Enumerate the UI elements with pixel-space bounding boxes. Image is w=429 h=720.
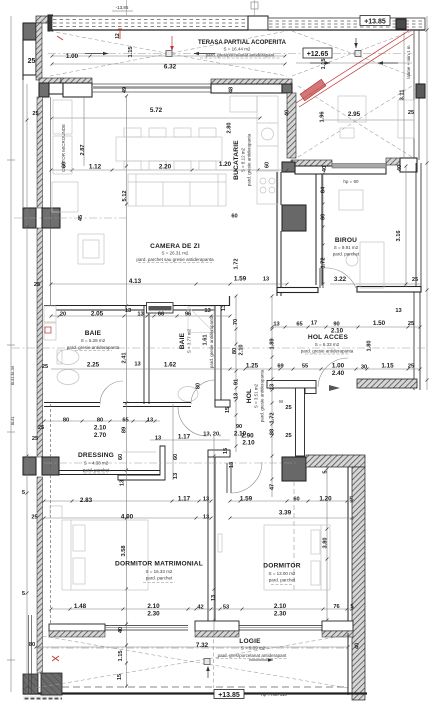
- svg-text:hp = 90: hp = 90: [343, 179, 359, 184]
- svg-text:1.80: 1.80: [367, 340, 373, 351]
- top wall of living room with window: [39, 78, 92, 97]
- inner face of left wall: [50, 97, 52, 624]
- svg-text:60: 60: [231, 214, 237, 220]
- svg-text:47: 47: [270, 484, 276, 490]
- svg-text:25: 25: [42, 364, 48, 370]
- svg-text:25: 25: [408, 364, 414, 370]
- svg-text:BAIE: BAIE: [85, 330, 102, 337]
- furniture: [44, 96, 414, 590]
- birou top wall with window: [282, 158, 417, 174]
- svg-text:BL81-BL-06: BL81-BL-06: [11, 366, 15, 385]
- far-left elevation dim line: [10, 16, 12, 692]
- right outer dim line: [426, 16, 428, 390]
- tv unit: [78, 234, 104, 264]
- svg-text:1.61: 1.61: [203, 334, 209, 345]
- left dim line: [26, 84, 28, 695]
- svg-text:5: 5: [323, 470, 329, 473]
- svg-text:pard. gresie antiderapanta: pard. gresie antiderapanta: [260, 369, 265, 422]
- svg-text:25: 25: [32, 436, 38, 442]
- svg-text:13: 13: [155, 436, 161, 442]
- svg-text:15: 15: [225, 407, 231, 413]
- baie2 door arc: [191, 380, 215, 404]
- column at bedroom2 corner: [282, 457, 306, 481]
- svg-text:13: 13: [125, 308, 131, 314]
- svg-text:13: 13: [221, 305, 227, 311]
- svg-text:+12.65: +12.65: [307, 51, 329, 58]
- svg-text:DORMITOR: DORMITOR: [263, 563, 300, 570]
- svg-text:S = 16.44 m2: S = 16.44 m2: [224, 47, 251, 52]
- svg-text:S = 3.51 m2: S = 3.51 m2: [254, 383, 259, 408]
- svg-text:25: 25: [38, 425, 44, 431]
- svg-text:5: 5: [350, 604, 353, 610]
- svg-text:CAMERA DE ZI: CAMERA DE ZI: [150, 243, 200, 250]
- svg-text:2.90: 2.90: [241, 433, 254, 440]
- left outer line top terrace: [22, 80, 24, 208]
- right exterior hatched wall: [352, 467, 365, 700]
- svg-text:13: 13: [134, 362, 140, 368]
- svg-text:pard. gresie antiderapanta: pard. gresie antiderapanta: [67, 345, 120, 350]
- svg-text:13: 13: [147, 418, 153, 424]
- hol acces bottom entry wall: [318, 358, 417, 391]
- bedroom doors: [227, 462, 262, 493]
- svg-text:3.16: 3.16: [396, 230, 402, 241]
- svg-text:pard. gresie antiderapanta: pard. gresie antiderapanta: [209, 315, 214, 368]
- svg-text:1.48: 1.48: [74, 603, 87, 610]
- svg-text:17: 17: [311, 321, 317, 327]
- svg-text:1.00: 1.00: [66, 53, 79, 60]
- red marks: [45, 29, 413, 661]
- terrace top parapet left: [48, 15, 268, 31]
- svg-text:13: 13: [137, 312, 143, 318]
- svg-text:pard. parchet: pard. parchet: [83, 468, 110, 473]
- svg-text:+13.85: +13.85: [364, 19, 386, 26]
- svg-text:latime + min 1 m: latime + min 1 m: [406, 45, 411, 78]
- svg-text:+13.85: +13.85: [218, 692, 240, 699]
- svg-text:BUCATARIE: BUCATARIE: [233, 140, 240, 180]
- svg-text:1.62: 1.62: [164, 362, 177, 369]
- svg-text:5: 5: [349, 497, 352, 503]
- svg-text:80: 80: [63, 418, 69, 424]
- svg-text:S = 5.39 m2: S = 5.39 m2: [241, 646, 266, 651]
- svg-text:3.11: 3.11: [400, 90, 406, 101]
- svg-text:25: 25: [32, 111, 38, 117]
- svg-text:HOL ACCES: HOL ACCES: [308, 334, 349, 341]
- logie bottom wall: [23, 687, 367, 700]
- svg-text:pard. parchet: pard. parchet: [146, 576, 173, 581]
- svg-text:pard. gresie antiderapanta: pard. gresie antiderapanta: [301, 349, 354, 354]
- armchair left: [52, 182, 78, 212]
- svg-text:S = 3.77 m2: S = 3.77 m2: [187, 328, 192, 353]
- svg-text:2.40: 2.40: [332, 370, 345, 377]
- svg-text:25: 25: [408, 110, 414, 116]
- bed 2: [264, 525, 330, 590]
- top-left corner wall: [23, 16, 75, 80]
- svg-text:6.32: 6.32: [164, 64, 177, 71]
- tick marks: [35, 55, 422, 649]
- svg-text:1.17: 1.17: [178, 434, 191, 441]
- svg-text:80: 80: [97, 418, 103, 424]
- svg-text:15: 15: [117, 674, 123, 680]
- svg-text:1.00: 1.00: [332, 363, 345, 370]
- birou & hall bottom wall: [277, 287, 421, 293]
- svg-text:DRESSING: DRESSING: [78, 452, 114, 459]
- top edge tiny marks: [112, 0, 258, 16]
- svg-text:70: 70: [233, 319, 239, 325]
- birou: [360, 242, 384, 288]
- svg-text:40: 40: [322, 166, 328, 172]
- svg-text:40: 40: [118, 627, 124, 633]
- svg-text:1.12: 1.12: [89, 164, 102, 171]
- birou right wall: [416, 163, 421, 291]
- svg-text:-13,85: -13,85: [116, 5, 129, 10]
- bottom wall bedroom2 + window: [239, 621, 353, 637]
- svg-text:13: 13: [273, 322, 279, 328]
- svg-text:2.83: 2.83: [80, 497, 93, 504]
- svg-text:69: 69: [277, 364, 283, 370]
- svg-text:5: 5: [22, 591, 25, 597]
- svg-text:30: 30: [361, 365, 367, 371]
- svg-text:2.41: 2.41: [122, 352, 128, 363]
- svg-text:1.72: 1.72: [234, 258, 240, 269]
- svg-text:42: 42: [197, 605, 203, 611]
- svg-text:pard. parchet sau gresie antid: pard. parchet sau gresie antiderapanta: [136, 257, 214, 262]
- terrace top parapet right: [268, 18, 425, 30]
- kitchen tall units left: [53, 100, 72, 134]
- svg-text:S = 16.33 m2: S = 16.33 m2: [146, 569, 173, 574]
- svg-text:7.32: 7.32: [196, 642, 209, 649]
- svg-text:13: 13: [203, 497, 209, 503]
- svg-text:S = 8.12 m2: S = 8.12 m2: [241, 147, 246, 172]
- svg-text:1.96: 1.96: [320, 111, 326, 122]
- svg-text:3.58: 3.58: [121, 545, 127, 556]
- svg-text:49: 49: [122, 87, 128, 93]
- svg-text:13: 13: [395, 308, 401, 314]
- svg-text:13, 20,: 13, 20,: [203, 432, 221, 438]
- svg-text:S = 4.38 m2: S = 4.38 m2: [84, 461, 109, 466]
- svg-text:60: 60: [321, 214, 327, 220]
- svg-text:1.15: 1.15: [118, 650, 124, 661]
- svg-text:1.59: 1.59: [240, 496, 253, 503]
- svg-text:60: 60: [173, 454, 179, 460]
- svg-text:25: 25: [34, 282, 40, 288]
- svg-text:S = 9.91 m2: S = 9.91 m2: [334, 245, 359, 250]
- T base wall between bedrooms at logie: [195, 621, 239, 637]
- left wall columns: [23, 208, 36, 228]
- svg-text:40: 40: [285, 110, 291, 116]
- svg-text:S = 26.31 m2: S = 26.31 m2: [162, 251, 189, 256]
- svg-text:90: 90: [236, 424, 242, 430]
- svg-text:91: 91: [234, 379, 240, 385]
- svg-text:1.72: 1.72: [270, 412, 276, 423]
- svg-text:DORMITOR MATRIMONIAL: DORMITOR MATRIMONIAL: [115, 561, 203, 568]
- kitchen top wall: [211, 79, 292, 93]
- svg-text:3.39: 3.39: [279, 510, 292, 517]
- svg-text:1.25: 1.25: [246, 363, 259, 370]
- bathrooms bottom wall: [44, 403, 191, 407]
- svg-text:S = 5.28 m2: S = 5.28 m2: [81, 338, 106, 343]
- svg-text:25: 25: [285, 433, 291, 439]
- horizontal chains: [52, 55, 285, 57]
- svg-text:S = 6.33 m2: S = 6.33 m2: [315, 342, 340, 347]
- svg-text:2.25: 2.25: [87, 362, 100, 369]
- svg-text:2.87: 2.87: [80, 144, 86, 155]
- svg-text:BL81: BL81: [11, 417, 15, 425]
- svg-text:60: 60: [293, 497, 299, 503]
- covered terrace left wall (hatched): [287, 93, 296, 158]
- svg-text:1.15: 1.15: [381, 363, 394, 370]
- svg-text:25: 25: [28, 58, 36, 65]
- svg-text:1.72: 1.72: [321, 257, 327, 268]
- svg-text:1.89: 1.89: [270, 338, 276, 349]
- svg-text:2.10: 2.10: [239, 344, 245, 355]
- svg-text:1.59: 1.59: [234, 276, 247, 283]
- svg-text:13: 13: [229, 462, 235, 468]
- wall kitchen-hall below column: [277, 172, 281, 296]
- left outer line logie: [29, 615, 32, 694]
- bathroom2 right wall: [215, 306, 230, 407]
- svg-text:2.10: 2.10: [94, 425, 107, 432]
- birou vertical chain: [322, 174, 324, 287]
- svg-text:40: 40: [355, 643, 361, 649]
- svg-text:1.20: 1.20: [219, 161, 232, 168]
- svg-text:2.10: 2.10: [242, 440, 255, 447]
- svg-text:2.20: 2.20: [159, 164, 172, 171]
- svg-text:48: 48: [229, 87, 235, 93]
- pard label underlines: [75, 58, 350, 659]
- svg-text:pard. parchet: pard. parchet: [269, 578, 296, 583]
- svg-text:1.15: 1.15: [321, 58, 327, 69]
- svg-text:76: 76: [333, 604, 339, 610]
- T wall right of HOL: [267, 381, 316, 457]
- svg-text:BIROU: BIROU: [335, 237, 357, 244]
- svg-text:13: 13: [270, 384, 276, 390]
- svg-text:2.10: 2.10: [331, 328, 344, 335]
- bed 1: [62, 520, 148, 590]
- svg-text:25: 25: [412, 277, 418, 283]
- svg-text:4.00: 4.00: [121, 514, 134, 521]
- living room window band: [92, 84, 211, 92]
- living big sofa: [128, 174, 226, 206]
- svg-text:13: 13: [204, 308, 210, 314]
- svg-text:1.17: 1.17: [178, 496, 191, 503]
- kitchen counter right: [257, 96, 278, 204]
- svg-text:80: 80: [29, 642, 35, 648]
- svg-text:pard. gres/porcelanat antidera: pard. gres/porcelanat antiderapant: [206, 53, 276, 58]
- svg-text:12: 12: [115, 33, 121, 39]
- svg-text:13: 13: [234, 393, 240, 399]
- svg-text:hp = min 110: hp = min 110: [261, 692, 287, 697]
- svg-text:2.10: 2.10: [274, 603, 287, 610]
- terrace room furniture: [338, 96, 366, 122]
- svg-text:LOGIE: LOGIE: [239, 638, 261, 645]
- svg-text:88: 88: [270, 429, 276, 435]
- svg-text:89: 89: [122, 427, 128, 433]
- center-left vertical dim line: [126, 96, 128, 688]
- svg-text:80: 80: [232, 348, 238, 354]
- bedroom2 top hatched band: [306, 455, 365, 467]
- svg-text:13: 13: [173, 473, 179, 479]
- svg-text:2.80: 2.80: [227, 122, 233, 133]
- svg-text:60: 60: [118, 454, 124, 460]
- hol acces right wall: [414, 292, 420, 390]
- corridor door arc to hol: [178, 407, 207, 436]
- svg-text:5.12: 5.12: [122, 190, 128, 201]
- svg-text:84: 84: [321, 186, 327, 193]
- far-left tiny labels: [11, 366, 15, 425]
- birou left wall: [316, 174, 322, 285]
- svg-text:4.13: 4.13: [129, 278, 142, 285]
- svg-text:15: 15: [223, 448, 229, 454]
- dressing bottom wall / bedroom1 top wall: [44, 471, 165, 475]
- svg-text:pard. gresie antiderapanta: pard. gresie antiderapanta: [247, 133, 252, 186]
- svg-text:1.50: 1.50: [373, 320, 386, 327]
- svg-text:1.20: 1.20: [319, 496, 332, 503]
- svg-text:1.15: 1.15: [128, 46, 134, 57]
- svg-text:S = 13.00 m2: S = 13.00 m2: [269, 571, 296, 576]
- covered terrace right railing: [414, 30, 419, 160]
- svg-text:2.30: 2.30: [147, 611, 160, 618]
- wardrobe U in dressing: [118, 446, 165, 480]
- svg-text:pard. gres/porcelanat antidera: pard. gres/porcelanat antiderapant: [218, 653, 288, 658]
- level boxes: [214, 16, 390, 700]
- svg-text:13: 13: [120, 480, 126, 486]
- baie1 fixtures: [44, 306, 56, 322]
- bottom-left corner columns: [23, 674, 38, 694]
- svg-text:3.22: 3.22: [334, 276, 347, 283]
- svg-text:5: 5: [22, 490, 25, 496]
- svg-text:2.05: 2.05: [91, 311, 104, 318]
- svg-text:80: 80: [196, 383, 202, 389]
- svg-text:45: 45: [78, 215, 84, 221]
- svg-text:2.95: 2.95: [348, 111, 361, 118]
- svg-text:60: 60: [62, 162, 68, 168]
- svg-text:2.70: 2.70: [94, 432, 107, 439]
- stub near living corner: [229, 296, 231, 306]
- arrows: [85, 38, 398, 678]
- svg-text:96: 96: [185, 312, 191, 318]
- svg-text:20: 20: [60, 312, 66, 318]
- svg-text:55: 55: [302, 364, 308, 370]
- svg-text:65: 65: [296, 322, 302, 328]
- baie door arc: [100, 381, 123, 404]
- bottom wall bedroom1 + window: [49, 624, 188, 637]
- svg-text:2.30: 2.30: [274, 611, 287, 618]
- svg-text:25: 25: [408, 321, 414, 327]
- svg-text:BAIE: BAIE: [179, 332, 186, 349]
- bedroom2 left wall: [208, 450, 230, 624]
- svg-text:40: 40: [397, 165, 403, 171]
- svg-text:60: 60: [265, 162, 271, 168]
- svg-text:pard. parchet: pard. parchet: [333, 252, 360, 257]
- diagonal cross bracing dashed: [36, 31, 412, 688]
- svg-text:13: 13: [211, 595, 217, 601]
- logie right wall line: [347, 633, 349, 695]
- birou door leaf and arc: [320, 268, 356, 288]
- svg-text:13: 13: [263, 277, 269, 283]
- wall between bathrooms: [144, 306, 149, 404]
- svg-text:25: 25: [285, 405, 291, 411]
- dining table and chairs: [116, 137, 222, 161]
- svg-text:HOL: HOL: [246, 389, 253, 404]
- svg-text:53: 53: [223, 605, 229, 611]
- svg-text:66: 66: [158, 312, 164, 318]
- hol vertical chains: [271, 296, 273, 497]
- baie2 fixtures: [147, 303, 174, 314]
- left wall vertical hatched: [37, 97, 43, 208]
- bathrooms top wall: [44, 306, 230, 311]
- kitchen / birou big column: [282, 205, 306, 231]
- svg-text:65: 65: [122, 418, 128, 424]
- svg-text:13: 13: [203, 515, 209, 521]
- svg-text:3.80: 3.80: [323, 537, 329, 548]
- svg-text:2.10: 2.10: [147, 603, 160, 610]
- svg-text:TERASA PARTIAL ACOPERITA: TERASA PARTIAL ACOPERITA: [198, 40, 287, 46]
- dressing rail: [122, 451, 156, 453]
- svg-text:25: 25: [31, 515, 37, 521]
- svg-text:5.72: 5.72: [150, 107, 163, 114]
